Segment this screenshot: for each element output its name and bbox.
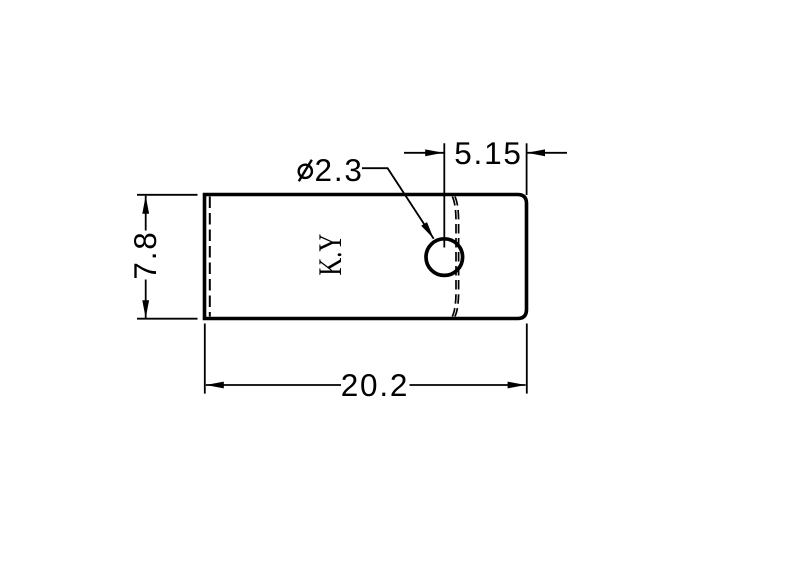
svg-text:7.8: 7.8 bbox=[127, 230, 163, 279]
svg-text:K.Y: K.Y bbox=[313, 234, 349, 276]
svg-text:2.3: 2.3 bbox=[315, 152, 364, 188]
svg-text:20.2: 20.2 bbox=[341, 367, 410, 403]
svg-text:5.15: 5.15 bbox=[454, 135, 523, 171]
